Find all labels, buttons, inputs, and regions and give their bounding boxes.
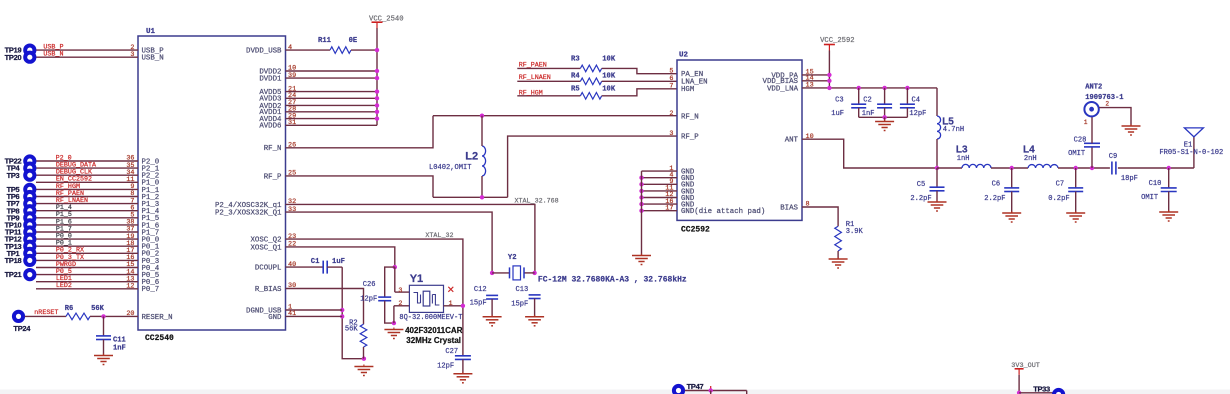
wire net RF_P from U1 xyxy=(286,176,434,197)
wire C13 to ground xyxy=(534,299,536,317)
wire Y1 pin 2 stub xyxy=(394,305,410,307)
svg-text:402F32011CAR: 402F32011CAR xyxy=(405,326,463,335)
wire C5 bottom lead xyxy=(936,191,938,202)
wire net nRESET xyxy=(25,315,66,317)
svg-text:12pF: 12pF xyxy=(909,110,926,118)
wire net RF_LNAEN xyxy=(517,80,580,82)
svg-text:3: 3 xyxy=(398,287,402,295)
svg-text:L2: L2 xyxy=(465,151,478,163)
svg-text:39: 39 xyxy=(288,72,296,80)
ground below C6 xyxy=(1002,211,1021,222)
capacitor C12 xyxy=(486,295,498,299)
resistor R6 xyxy=(66,313,90,320)
test point TP8 xyxy=(23,204,36,217)
test point TP6 xyxy=(23,190,36,203)
wire AVDD2 to VCC_2540 bus xyxy=(286,104,378,106)
svg-text:R4: R4 xyxy=(571,73,580,81)
test point TP3 xyxy=(23,169,36,182)
wire net P0_5 xyxy=(36,274,138,276)
svg-text:TP21: TP21 xyxy=(5,270,22,279)
junction VCC_2540 bus xyxy=(375,116,379,120)
crystal Y1 body xyxy=(409,285,443,312)
svg-text:15pF: 15pF xyxy=(511,300,528,308)
svg-text:R11: R11 xyxy=(318,37,332,45)
wire net XTAL_32 to C27 xyxy=(286,239,463,356)
svg-text:C7: C7 xyxy=(1056,181,1065,189)
wire RF_N rail to U2 pin 2 xyxy=(433,115,677,117)
svg-text:C11: C11 xyxy=(113,337,126,345)
svg-text:C10: C10 xyxy=(1149,180,1162,188)
junction VCC_2540 bus xyxy=(375,89,379,93)
ground below C12 xyxy=(483,315,502,326)
junction VCC_2540 bus xyxy=(375,76,379,80)
svg-text:RF_HGM: RF_HGM xyxy=(519,89,543,97)
resistor R1 xyxy=(835,226,842,251)
wire DVDD2 to VCC_2540 bus xyxy=(286,70,378,72)
wire C28 to ANT2 pin 1 xyxy=(1091,117,1093,143)
resistor R2 xyxy=(360,324,367,347)
test point TP21 xyxy=(23,268,36,281)
wire AVDD3 to VCC_2540 bus xyxy=(286,97,378,99)
junction GND pin 41 xyxy=(340,314,344,318)
svg-text:1: 1 xyxy=(1084,119,1088,126)
capacitor C13 xyxy=(529,295,541,299)
svg-text:OMIT: OMIT xyxy=(1068,150,1085,158)
wire ANT2 pin 2 to ground xyxy=(1099,108,1131,126)
wire pin 22 down to junction xyxy=(286,247,395,267)
svg-text:2: 2 xyxy=(669,110,673,118)
wire C3 top lead xyxy=(858,88,860,104)
resistor R3 xyxy=(580,65,601,72)
wire junction to C26 xyxy=(385,267,395,297)
junction Y2 left xyxy=(490,271,494,275)
svg-text:8Q-32.000MEEV-T: 8Q-32.000MEEV-T xyxy=(399,314,462,322)
IC U1 CC2540 body xyxy=(138,36,286,330)
wire R1 to ground xyxy=(837,251,839,259)
wire net P1_4 xyxy=(36,210,138,212)
junction TP33 node xyxy=(1017,391,1021,394)
wire C12 to ground xyxy=(491,299,493,317)
junction XOSC_Q1 node xyxy=(393,265,397,269)
capacitor C5 xyxy=(930,187,945,191)
wire C7 bottom lead xyxy=(1075,192,1077,214)
svg-text:TP20: TP20 xyxy=(5,53,22,62)
wire net P0_1 xyxy=(36,245,138,247)
test point TP13 xyxy=(23,240,36,253)
wire net nRESET to pin 20 xyxy=(104,315,139,317)
wire net EN_CC2592 xyxy=(36,181,138,183)
connector ANT2 coax jack xyxy=(1084,102,1098,116)
svg-text:TP3: TP3 xyxy=(7,171,20,180)
junction TP47 wire xyxy=(709,388,713,392)
svg-text:3.9K: 3.9K xyxy=(846,228,864,236)
wire net ANT from U2 xyxy=(802,139,937,168)
wire RF rail L3 to L4 xyxy=(991,167,1028,169)
wire R6 to C11 node xyxy=(90,315,104,317)
svg-text:1uF: 1uF xyxy=(831,110,844,118)
svg-text:L3: L3 xyxy=(956,145,968,156)
junction L2 bottom xyxy=(480,195,484,199)
svg-text:GND(die attach pad): GND(die attach pad) xyxy=(681,208,765,216)
wire L2 top lead xyxy=(481,116,483,146)
svg-text:DVDD_USB: DVDD_USB xyxy=(246,48,282,56)
wire AVDD1 to VCC_2540 bus xyxy=(286,111,378,113)
svg-text:CC2540: CC2540 xyxy=(145,334,174,343)
junction decoupling rail xyxy=(857,86,861,90)
svg-text:12: 12 xyxy=(126,283,134,291)
svg-text:C26: C26 xyxy=(363,281,376,289)
wire U2 GND pin 1 xyxy=(642,170,678,172)
wire DVDD_USB to R11 xyxy=(286,49,331,51)
svg-text:TP47: TP47 xyxy=(687,382,704,391)
svg-text:56K: 56K xyxy=(345,326,359,334)
ground below C10 xyxy=(1159,210,1178,221)
capacitor C1 xyxy=(323,261,327,274)
svg-text:OMIT: OMIT xyxy=(1141,194,1158,202)
junction VCC_2540 bus xyxy=(375,110,379,114)
test point TP47 xyxy=(672,384,685,394)
svg-text:L4: L4 xyxy=(1023,145,1035,156)
svg-text:R_BIAS: R_BIAS xyxy=(255,286,282,294)
test point TP1 xyxy=(23,247,36,260)
wire stub above TP47 junction xyxy=(710,386,712,391)
wire R11 to VCC_2540 bus xyxy=(351,49,377,51)
svg-text:VCC_2540: VCC_2540 xyxy=(369,15,404,23)
svg-text:R6: R6 xyxy=(65,305,74,313)
ground below C5 xyxy=(928,200,947,211)
svg-text:C12: C12 xyxy=(474,286,487,294)
junction L2 top xyxy=(480,114,484,118)
svg-text:TP18: TP18 xyxy=(5,256,22,265)
wire decoupling ground rail xyxy=(859,116,908,118)
capacitor C11 xyxy=(96,336,111,340)
svg-text:XTAL_32: XTAL_32 xyxy=(425,232,453,240)
wire net RF_HGM xyxy=(517,95,580,97)
svg-text:C27: C27 xyxy=(445,348,458,356)
ground below C2 xyxy=(875,120,894,131)
svg-text:XTAL_32.768: XTAL_32.768 xyxy=(515,198,559,206)
svg-text:15pF: 15pF xyxy=(470,300,487,308)
capacitor C3 xyxy=(851,104,866,108)
svg-text:32MHz Crystal: 32MHz Crystal xyxy=(406,336,461,345)
wire net P1_7 xyxy=(36,231,138,233)
junction C10 tap xyxy=(1167,166,1171,170)
svg-text:18pF: 18pF xyxy=(1121,175,1138,183)
capacitor C7 xyxy=(1068,188,1083,192)
power symbol VCC_2540 xyxy=(372,22,383,28)
junction U2 ground bus xyxy=(639,209,643,213)
wire net USB_N xyxy=(36,56,138,58)
wire C4 top lead xyxy=(906,88,908,104)
power symbol 3V3_OUT xyxy=(1015,369,1024,375)
svg-text:C6: C6 xyxy=(992,181,1001,189)
svg-text:C9: C9 xyxy=(1109,153,1118,161)
wire net LED1 xyxy=(36,281,138,283)
wire net USB_P xyxy=(36,49,138,51)
svg-text:1nH: 1nH xyxy=(957,155,970,163)
test point TP20 xyxy=(23,51,36,64)
svg-text:10K: 10K xyxy=(602,55,616,63)
wire net DEBUG_CLK xyxy=(36,174,138,176)
test point TP5 xyxy=(23,183,36,196)
wire C2 top lead xyxy=(884,88,886,104)
wire C28 bottom lead xyxy=(1091,147,1093,168)
svg-text:R5: R5 xyxy=(571,85,580,93)
wire U2 ground bus vertical xyxy=(641,171,643,255)
junction U2 ground bus xyxy=(639,176,643,180)
wire R4 to U2 LNA_EN xyxy=(602,80,677,82)
svg-text:C13: C13 xyxy=(516,286,529,294)
junction U2 ground bus xyxy=(639,182,643,186)
resistor R4 xyxy=(580,78,601,85)
test point TP10 xyxy=(23,218,36,231)
wire C1 ground bus vertical xyxy=(342,267,364,359)
svg-text:4.7nH: 4.7nH xyxy=(943,126,964,134)
svg-text:C2: C2 xyxy=(863,97,872,105)
wire pin 33 to Y2/C12 xyxy=(286,212,493,273)
wire C11 to ground xyxy=(103,340,105,356)
wire net RF_PAEN xyxy=(36,196,138,198)
junction ground node xyxy=(362,357,366,361)
wire DVDD1 to VCC_2540 bus xyxy=(286,77,378,79)
svg-text:XOSC_Q2: XOSC_Q2 xyxy=(250,237,281,245)
wire U2 GND pin 11 xyxy=(642,190,678,192)
wire VDD_PA to VCC_2592 bus xyxy=(802,74,829,76)
wire RF rail xyxy=(937,167,962,169)
wire 3V3_OUT down xyxy=(1018,375,1020,393)
svg-text:12pF: 12pF xyxy=(360,296,377,304)
wire net XTAL_32.768 xyxy=(286,204,535,273)
wire U2 GND pin 17 xyxy=(642,210,678,212)
svg-text:GND: GND xyxy=(268,314,282,322)
junction decoupling ground rail xyxy=(882,115,886,119)
no-connect X mark Y1 pin 4 xyxy=(448,287,453,292)
wire net RF_N from U1 xyxy=(286,116,434,148)
inductor L3 xyxy=(962,164,991,168)
capacitor C2 xyxy=(877,104,892,108)
svg-text:1909763-1: 1909763-1 xyxy=(1085,94,1123,102)
svg-text:17: 17 xyxy=(665,204,673,212)
wire net P1_6 xyxy=(36,224,138,226)
svg-text:10K: 10K xyxy=(602,85,616,93)
wire L2 bottom lead xyxy=(481,176,483,197)
capacitor C28 xyxy=(1084,143,1100,147)
wire RF_P bottom rail xyxy=(433,196,508,198)
junction decoupling rail xyxy=(905,86,909,90)
svg-text:3: 3 xyxy=(669,130,673,138)
wire VCC_2592 bus vertical xyxy=(828,51,830,88)
inductor L4 xyxy=(1028,164,1058,168)
test point TP12 xyxy=(23,233,36,246)
wire VDD_LNA / decoupling rail xyxy=(802,87,937,89)
resistor R11 xyxy=(330,47,351,54)
svg-text:1nF: 1nF xyxy=(113,344,126,352)
wire C6 bottom lead xyxy=(1011,192,1013,214)
svg-text:Y2: Y2 xyxy=(508,254,517,262)
wire net RF_PAEN xyxy=(517,67,580,69)
svg-text:L0402,OMIT: L0402,OMIT xyxy=(429,164,472,172)
svg-text:VDD_LNA: VDD_LNA xyxy=(767,85,799,93)
wire net P0_3_TX xyxy=(36,259,138,261)
svg-text:HGM: HGM xyxy=(681,86,694,94)
wire C27 to ground xyxy=(462,359,464,373)
svg-text:VCC_2592: VCC_2592 xyxy=(820,37,855,45)
svg-text:2.2pF: 2.2pF xyxy=(984,195,1005,203)
wire VCC_2540 vertical bus xyxy=(376,28,378,125)
inductor L2 xyxy=(482,146,486,176)
ground below ANT2 xyxy=(1122,124,1141,135)
inductor L5 xyxy=(937,116,941,139)
capacitor C10 xyxy=(1161,188,1177,192)
crystal Y2 body xyxy=(510,266,525,280)
svg-text:RESER_N: RESER_N xyxy=(142,314,173,322)
svg-text:0.2pF: 0.2pF xyxy=(1048,195,1069,203)
wire C10 bottom lead xyxy=(1168,192,1170,213)
wire U2 GND pin 16 xyxy=(642,203,678,205)
junction U2 ground bus xyxy=(639,202,643,206)
junction VCC_2592 bus xyxy=(827,73,831,77)
resistor R5 xyxy=(580,93,601,100)
svg-text:20: 20 xyxy=(126,310,134,318)
test point TP11 xyxy=(23,225,36,238)
wire to ground xyxy=(884,117,886,121)
svg-text:RF_P: RF_P xyxy=(264,173,282,181)
test point TP7 xyxy=(23,197,36,210)
junction VCC_2592 bus xyxy=(827,79,831,83)
junction DGND_USB xyxy=(340,308,344,312)
ground below C11 xyxy=(94,354,113,365)
wire R5 to U2 HGM xyxy=(602,89,677,96)
test point TP24 xyxy=(12,310,25,323)
wire RF_P rail to U2 pin 3 xyxy=(508,136,677,197)
svg-text:31: 31 xyxy=(288,119,296,127)
svg-text:C4: C4 xyxy=(912,97,921,105)
ground below U2 xyxy=(632,254,651,265)
ground below C7 xyxy=(1066,211,1085,222)
wire GND pin41 to bus xyxy=(286,315,343,317)
svg-text:U2: U2 xyxy=(679,52,689,60)
wire U2 GND pin 12 xyxy=(642,197,678,199)
wire net P0_2_RX xyxy=(36,252,138,254)
wire C6 top lead xyxy=(1011,168,1013,188)
svg-text:LED2: LED2 xyxy=(56,282,72,290)
wire C2 bottom lead xyxy=(884,108,886,118)
junction VCC_2540 bus xyxy=(375,69,379,73)
svg-text:P2_3/XOSX32K_Q1: P2_3/XOSX32K_Q1 xyxy=(215,210,282,218)
svg-text:2nH: 2nH xyxy=(1024,155,1037,163)
svg-text:AVDD6: AVDD6 xyxy=(259,123,281,131)
capacitor C26 xyxy=(378,297,391,301)
svg-text:0E: 0E xyxy=(349,37,358,45)
wire RF rail L4 to C9 xyxy=(1058,167,1110,169)
test point TP33 xyxy=(1052,388,1065,394)
wire down to C11 xyxy=(103,316,105,336)
antenna E1 xyxy=(1184,128,1203,137)
svg-text:BIAS: BIAS xyxy=(780,204,798,212)
junction decoupling rail xyxy=(882,86,886,90)
svg-text:CC2592: CC2592 xyxy=(681,226,710,235)
svg-text:DCOUPL: DCOUPL xyxy=(255,265,282,273)
wire C7 top lead xyxy=(1075,168,1077,188)
wire TP47 stub down xyxy=(710,391,712,394)
svg-text:ANT: ANT xyxy=(785,137,799,145)
junction VCC_2540 bus xyxy=(375,103,379,107)
svg-text:RF_N: RF_N xyxy=(264,145,282,153)
svg-text:RF_PAEN: RF_PAEN xyxy=(519,61,547,69)
svg-text:1: 1 xyxy=(449,300,453,308)
wire to antenna E1 xyxy=(1193,137,1195,168)
svg-text:XOSC_Q1: XOSC_Q1 xyxy=(250,244,282,252)
ground below C27 xyxy=(453,372,472,383)
junction VCC_2540 bus xyxy=(375,96,379,100)
wire net P1_5 xyxy=(36,217,138,219)
svg-text:TP33: TP33 xyxy=(1033,385,1050,394)
wire RF rail C9 to antenna xyxy=(1118,167,1194,169)
wire AVDD5 to VCC_2540 bus xyxy=(286,91,378,93)
junction U2 ground bus xyxy=(639,195,643,199)
svg-text:RF_N: RF_N xyxy=(681,114,699,122)
svg-text:RF_LNAEN: RF_LNAEN xyxy=(519,74,551,82)
capacitor C9 xyxy=(1112,162,1116,175)
svg-text:C28: C28 xyxy=(1074,137,1087,145)
svg-text:FR05-S1-N-0-102: FR05-S1-N-0-102 xyxy=(1159,149,1223,157)
wire AVDD6 to VCC_2540 bus xyxy=(286,124,378,126)
ground below Y1 xyxy=(384,328,403,339)
svg-text:FC-12M 32.7680KA-A3 , 32.768kH: FC-12M 32.7680KA-A3 , 32.768kHz xyxy=(538,276,687,285)
svg-text:DVDD1: DVDD1 xyxy=(259,76,282,84)
wire net PWRGD xyxy=(36,267,138,269)
svg-text:56K: 56K xyxy=(91,305,105,313)
wire R3 to U2 PA_EN xyxy=(602,68,677,73)
wire C4 bottom lead xyxy=(906,108,908,118)
wire Y2 right plate to C13 line xyxy=(524,272,535,274)
svg-text:USB_N: USB_N xyxy=(43,51,63,59)
capacitor C6 xyxy=(1004,188,1019,192)
test point TP4 xyxy=(23,162,36,175)
wire net DEBUG_DATA xyxy=(36,167,138,169)
ground below C13 xyxy=(525,315,544,326)
ground below R1 xyxy=(829,257,848,268)
wire C3 bottom lead xyxy=(858,108,860,118)
wire DCOUPL to C1 xyxy=(286,266,324,268)
wire net RF_LNAEN xyxy=(36,203,138,205)
wire C1 to ground bus xyxy=(327,266,342,268)
test point TP18 xyxy=(23,254,36,267)
svg-text:ANT2: ANT2 xyxy=(1085,84,1102,92)
wire to Y2 left plate xyxy=(492,272,509,274)
junction Y2 right xyxy=(532,271,536,275)
junction U2 ground bus xyxy=(639,189,643,193)
IC U2 CC2592 body xyxy=(677,60,802,220)
svg-text:TP24: TP24 xyxy=(13,324,31,333)
wire Y1 pin 3 stub xyxy=(395,291,410,293)
junction Y1 pin 1 xyxy=(461,304,465,308)
wire U2 GND pin 4 xyxy=(642,177,678,179)
svg-text:7: 7 xyxy=(669,83,673,91)
junction C6 tap xyxy=(1010,166,1014,170)
svg-text:Y1: Y1 xyxy=(410,273,423,285)
junction L5 / RF rail xyxy=(935,166,939,170)
svg-text:P0_7: P0_7 xyxy=(142,286,160,294)
wire net LED2 xyxy=(36,288,138,290)
junction C7 tap xyxy=(1074,166,1078,170)
svg-text:U1: U1 xyxy=(146,28,156,36)
wire U2 GND pin 9 xyxy=(642,183,678,185)
svg-text:C3: C3 xyxy=(835,97,844,105)
wire C26 to ground junction xyxy=(385,301,394,323)
svg-text:2: 2 xyxy=(1105,101,1109,108)
wire net P2_0 xyxy=(36,160,138,162)
